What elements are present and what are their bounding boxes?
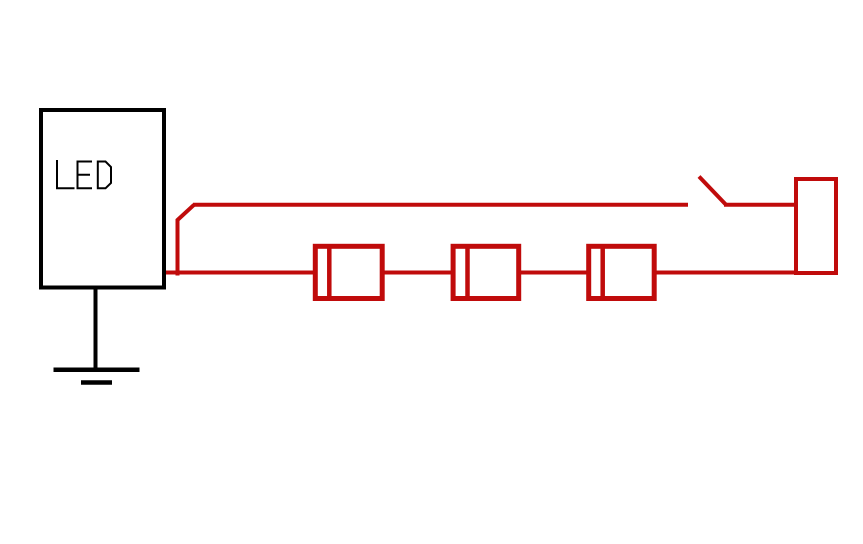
- label LED: [57, 161, 111, 188]
- wire stub from LED to top net: [178, 205, 195, 276]
- cell C3: [589, 246, 655, 298]
- wire switch to battery: [724, 203, 796, 207]
- cell C2: [453, 246, 519, 298]
- cell C1: [315, 246, 382, 298]
- battery BT1: [796, 179, 836, 273]
- LED block U1: [41, 110, 164, 288]
- switch SW1: [699, 177, 726, 205]
- wire top net: [193, 203, 688, 207]
- ground: [54, 287, 140, 383]
- wire bottom net: [166, 271, 838, 275]
